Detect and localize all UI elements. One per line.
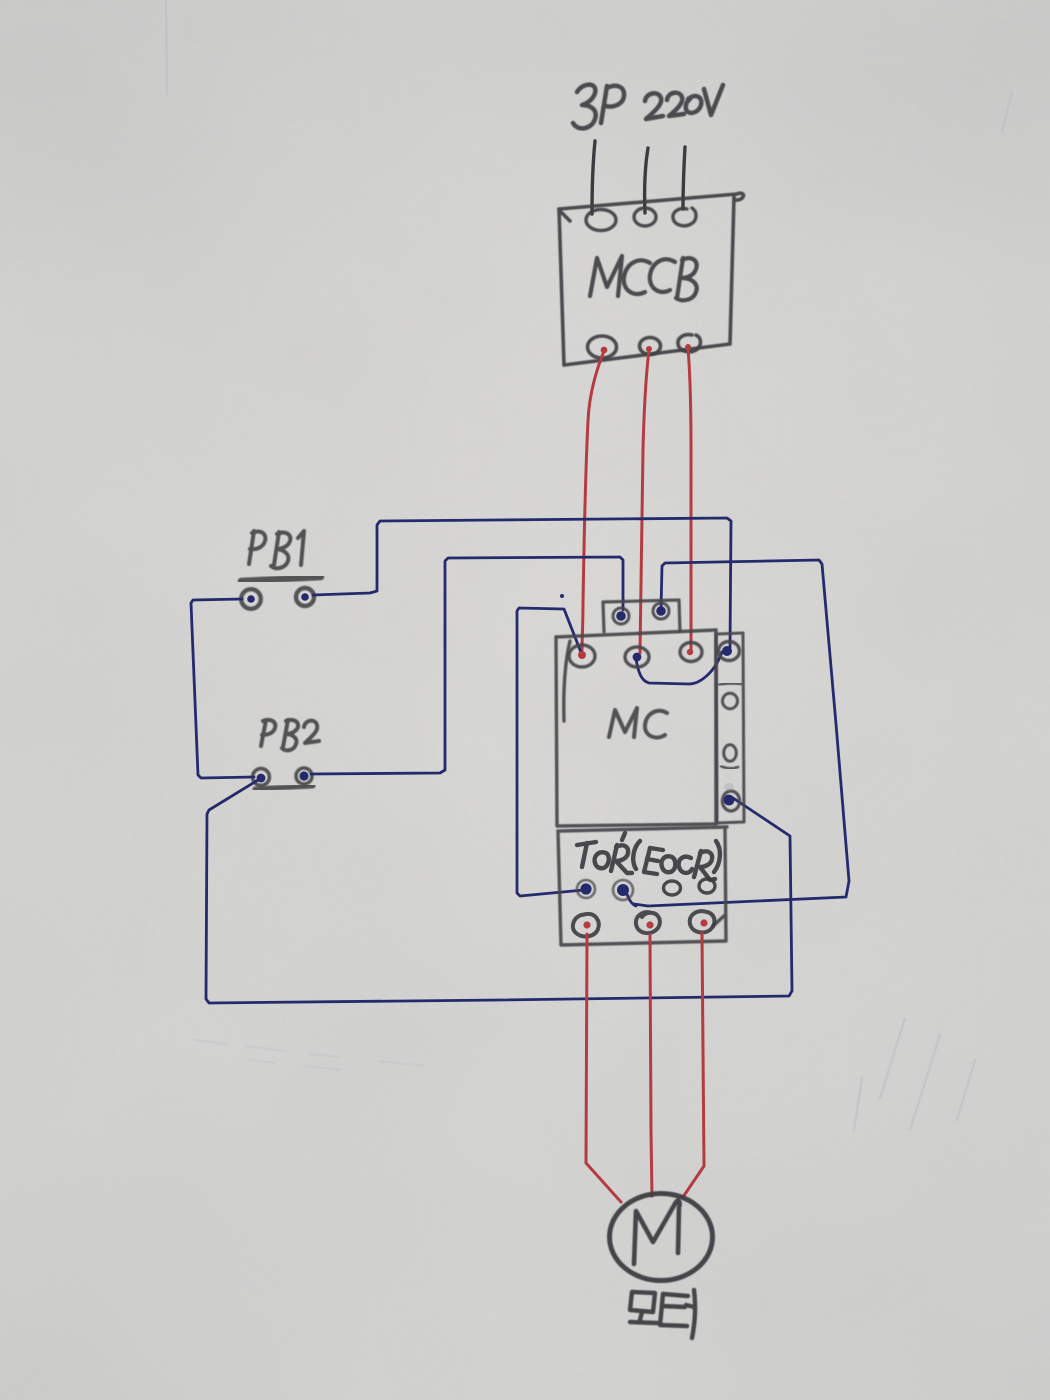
TOR bottom terminal b2 — [636, 912, 660, 933]
MCCB terminal B3 — [678, 335, 701, 352]
PB2 left contact — [253, 769, 270, 786]
power wire MCCB B1 to MC T1 — [582, 351, 604, 652]
ink dot start of wire — [560, 594, 564, 598]
wire TOR t2 tail — [626, 891, 636, 906]
power wire MCCB B3 to MC T3 — [688, 348, 691, 650]
wire MC T2 to T4 loop — [636, 652, 722, 684]
TOR terminal t2 — [613, 880, 633, 900]
breaker MCCB box — [559, 193, 744, 365]
MCCB terminal B1 — [588, 336, 617, 358]
wire PB2-left to bottom rail to MC aux bottom — [206, 780, 792, 1003]
MCCB terminal B2 — [640, 338, 661, 355]
MCCB terminal T3 — [673, 208, 696, 226]
MC aux terminal T4 — [719, 642, 740, 661]
red dot B1 — [601, 347, 608, 354]
label PB2 — [261, 720, 319, 750]
aux contact O2 — [724, 745, 737, 761]
label MCCB — [590, 256, 697, 300]
supply wire L2 — [645, 148, 648, 213]
aux divider dash — [719, 683, 741, 685]
TOR terminal t4 — [699, 879, 715, 893]
MCCB terminal T2 — [634, 208, 656, 226]
overload relay TOR box — [558, 827, 727, 945]
label PB1 — [249, 531, 304, 568]
label 3P 220V — [573, 85, 723, 129]
supply wire L1 — [592, 141, 595, 214]
MC aux bottom terminal — [722, 791, 739, 811]
contactor coil box — [603, 600, 680, 632]
MC terminal T2 — [625, 647, 649, 667]
label MC — [609, 708, 667, 738]
coil terminal A2 — [653, 603, 669, 619]
label TOR (EOCR) — [577, 833, 720, 880]
wire PB1-right to MC aux T4 — [313, 518, 731, 648]
motor circle — [610, 1194, 713, 1281]
MC terminal T3 — [680, 643, 702, 662]
PB2 right contact — [296, 768, 312, 784]
coil terminal A1 — [613, 608, 629, 624]
MCCB terminal T1 — [586, 210, 616, 231]
motor letter M — [634, 1200, 680, 1264]
MC terminal T1 — [569, 645, 595, 667]
red dot B3 — [685, 344, 691, 350]
wire PB2-right to coil A1 — [311, 557, 623, 774]
supply wire L3 — [683, 147, 685, 209]
contactor MC box — [556, 630, 716, 826]
MC aux strip — [716, 633, 744, 823]
motor wire V — [650, 935, 652, 1196]
motor wire W — [683, 933, 704, 1197]
wire PB1-left to PB2-left — [191, 599, 254, 778]
TOR bottom terminal b1 — [573, 914, 599, 937]
wire MC T1 to left drop to TOR t1 — [517, 608, 584, 896]
PB1 left contact — [241, 589, 261, 609]
faint ghost marks — [166, 2, 1012, 1130]
motor wire U — [586, 934, 621, 1202]
TOR terminal t3 — [664, 881, 681, 895]
label motor korean — [630, 1290, 695, 1338]
aux dash under O2 — [721, 766, 738, 768]
red dot B2 — [646, 346, 652, 352]
TOR bottom terminal b3 — [690, 911, 715, 932]
pushbutton PB2 bar — [255, 786, 313, 789]
main drawing group — [166, 2, 1012, 1338]
TOR terminal t1 — [577, 880, 595, 898]
PB1 right contact — [296, 588, 314, 606]
pushbutton PB1 bar — [241, 577, 321, 581]
wire coil A2 to right loop to TOR t2 — [634, 560, 849, 906]
aux contact O1 — [723, 693, 738, 709]
power wire MCCB B2 to MC T2 — [640, 350, 649, 653]
